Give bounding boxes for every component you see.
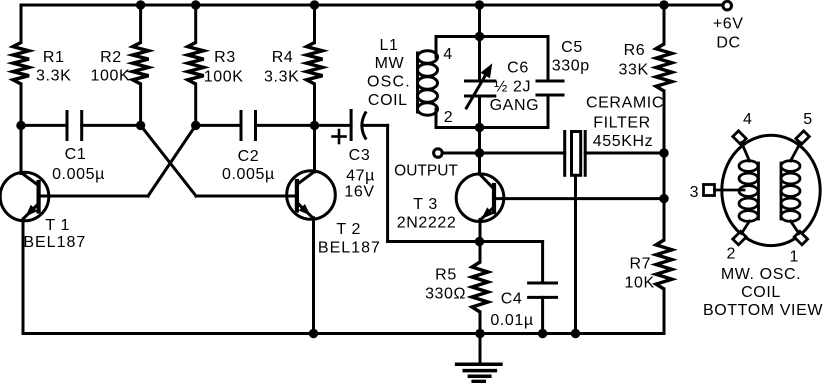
label C5 value 330p <box>552 58 590 75</box>
wire R4 node to C3 <box>315 124 352 127</box>
capacitor C2 <box>241 112 256 140</box>
svg-text:47µ: 47µ <box>346 167 375 184</box>
node output junction <box>475 148 484 157</box>
label T3 <box>413 196 438 213</box>
label C1 value 0.005u <box>52 166 105 183</box>
ground <box>457 334 501 382</box>
wire R3 top lead <box>194 5 197 43</box>
pin label 4 <box>743 111 753 128</box>
label R1 <box>43 49 65 66</box>
svg-text:BEL187: BEL187 <box>23 234 86 251</box>
pin label 2 (L1 bottom) <box>444 109 454 126</box>
wire R7 bottom lead <box>663 289 666 334</box>
wire tank column upper <box>478 5 481 37</box>
wire C1 to R2 node <box>82 124 141 127</box>
wire pin 3 lead <box>715 189 745 192</box>
wire R6 node to base node <box>663 153 666 199</box>
C3 polarity plus sign <box>333 130 346 143</box>
label C3 value 47u <box>346 167 375 184</box>
coil winding left (pins 4-2) <box>739 161 759 222</box>
wire C4 bottom lead <box>541 297 544 333</box>
pin label 3 <box>690 184 700 201</box>
wire T2 emitter lead <box>312 218 315 334</box>
coil pin 1 <box>794 231 807 244</box>
label COIL <box>741 284 781 301</box>
node top rail / R3 <box>191 0 200 9</box>
node top rail / R6 <box>659 0 668 9</box>
node top rail / tank column <box>475 0 484 9</box>
label C5 <box>561 39 583 56</box>
svg-text:OSC.: OSC. <box>367 73 411 90</box>
wire T2 collector lead <box>313 125 316 172</box>
inductor L1 MW oscillator coil <box>418 51 438 115</box>
svg-text:MW. OSC.: MW. OSC. <box>721 266 801 283</box>
wire R3 bottom lead <box>194 84 197 125</box>
label C4 value 0.01u <box>490 312 533 329</box>
label R1 value 3.3K <box>36 68 71 85</box>
wire R4 bottom lead <box>313 84 316 125</box>
svg-text:R7: R7 <box>629 256 651 273</box>
label L1 COIL <box>368 92 408 109</box>
wire bottom ground rail <box>23 332 664 335</box>
svg-text:R6: R6 <box>624 42 646 59</box>
resistor R3 <box>188 43 204 85</box>
wire T1 emitter lead <box>22 219 25 334</box>
pin label 5 <box>803 111 813 128</box>
label C4 <box>501 290 523 307</box>
label DC <box>716 35 740 52</box>
svg-text:BEL187: BEL187 <box>318 240 381 257</box>
label T1 part BEL187 <box>23 234 86 251</box>
wire R2 bottom lead <box>139 84 142 125</box>
label T2 part BEL187 <box>318 240 381 257</box>
svg-text:100K: 100K <box>204 69 244 86</box>
svg-text:COIL: COIL <box>368 92 408 109</box>
svg-text:+6V: +6V <box>713 16 744 33</box>
svg-text:3.3K: 3.3K <box>264 69 299 86</box>
label C2 value 0.005u <box>222 166 275 183</box>
svg-text:GANG: GANG <box>490 97 540 114</box>
resistor R5 <box>472 262 488 312</box>
svg-text:2: 2 <box>444 109 454 126</box>
transistor T2 <box>287 171 336 220</box>
node T3 emitter junction <box>475 237 484 246</box>
wire T2 base run <box>196 195 297 198</box>
node R4/C2/C3/T2 collector <box>310 121 319 130</box>
label R6 value 33K <box>619 61 649 78</box>
capacitor C3 curved plate <box>362 112 366 140</box>
node T2 emitter / ground rail <box>309 329 318 338</box>
label L1 OSC. <box>367 73 411 90</box>
node tank bottom / C6 <box>475 123 484 132</box>
wire C2 to R4 node <box>256 124 315 127</box>
svg-text:OUTPUT: OUTPUT <box>394 163 458 180</box>
wire pin 5 lead <box>791 143 801 162</box>
svg-text:455KHz: 455KHz <box>593 133 654 150</box>
svg-text:330Ω: 330Ω <box>425 286 466 303</box>
svg-text:COIL: COIL <box>741 284 781 301</box>
node filter / R6 junction <box>659 148 668 157</box>
coil bottom view outline <box>722 135 820 245</box>
wire tank to output node <box>478 128 481 154</box>
node filter bottom / ground rail <box>571 329 580 338</box>
label R7 value 10K <box>625 275 655 292</box>
transistor T3 <box>456 174 504 222</box>
label C1 <box>65 146 87 163</box>
wire R4 top lead <box>313 5 316 43</box>
capacitor C5 <box>537 81 563 95</box>
label R5 <box>435 267 457 284</box>
svg-text:C2: C2 <box>238 148 260 165</box>
svg-text:C1: C1 <box>65 146 87 163</box>
wire top +6V supply rail <box>21 4 723 7</box>
svg-text:0.01µ: 0.01µ <box>490 312 533 329</box>
wire T1 collector lead <box>20 125 23 173</box>
wire R7 top lead <box>663 199 666 240</box>
pin label 4 (L1 top) <box>443 46 453 63</box>
label OUTPUT <box>394 163 458 180</box>
node T3 base / divider junction <box>659 194 668 203</box>
label R2 <box>100 49 122 66</box>
svg-text:10K: 10K <box>625 275 655 292</box>
coil winding right (pins 5-1) <box>781 161 800 222</box>
label T1 <box>45 217 70 234</box>
resistor R6 <box>656 44 672 91</box>
label +6V <box>713 16 744 33</box>
svg-text:C3: C3 <box>349 147 371 164</box>
wire tank top <box>436 35 548 38</box>
svg-text:C6: C6 <box>507 59 529 76</box>
wire L1 top lead <box>435 37 438 58</box>
wire R5 top lead <box>479 242 482 263</box>
resistor R7 <box>656 240 672 289</box>
svg-text:330p: 330p <box>552 58 590 75</box>
label R6 <box>624 42 646 59</box>
wire pin 2 lead <box>742 221 750 234</box>
resistor R2 <box>133 43 149 85</box>
label CERAMIC <box>586 94 664 111</box>
wire R1 bottom lead <box>20 84 23 125</box>
wire output terminal to node <box>442 152 479 155</box>
svg-text:16V: 16V <box>344 183 374 200</box>
label R4 value 3.3K <box>264 69 299 86</box>
label C2 <box>238 148 260 165</box>
svg-text:0.005µ: 0.005µ <box>222 166 275 183</box>
coil pin 4 <box>733 131 746 144</box>
label C3 rating 16V <box>344 183 374 200</box>
wire T3 emitter lead <box>479 220 482 242</box>
coil pin 2 <box>733 231 746 244</box>
svg-text:DC: DC <box>716 35 740 52</box>
label 455KHz <box>593 133 654 150</box>
wire C6 bottom lead <box>478 96 481 128</box>
svg-text:3.3K: 3.3K <box>36 68 71 85</box>
resistor R1 <box>13 43 29 85</box>
label R3 value 100K <box>204 69 244 86</box>
ceramic filter 455KHz <box>565 132 586 176</box>
node R2/C1 junction <box>136 121 145 130</box>
wire emitter node to C4 <box>480 240 543 243</box>
node top rail / R2 <box>136 0 145 9</box>
wire cross-couple diagonal to T2 base <box>141 125 196 196</box>
label R7 <box>629 256 651 273</box>
wire L1 bottom lead <box>435 109 438 128</box>
label BOTTOM VIEW <box>703 302 823 319</box>
svg-text:100K: 100K <box>91 68 131 85</box>
node top rail / R4 <box>310 0 319 9</box>
wire pin 4 lead <box>742 143 750 162</box>
wire C3 right lead <box>363 124 388 127</box>
wire pin 1 lead <box>791 221 800 234</box>
wire C3 feedback horizontal <box>388 240 480 243</box>
svg-text:L1: L1 <box>380 37 399 54</box>
wire R5 bottom lead <box>479 312 482 334</box>
label L1 MW <box>375 55 405 72</box>
label C6 GANG <box>490 97 540 114</box>
svg-text:FILTER: FILTER <box>593 114 651 131</box>
wire C5 bottom lead <box>547 95 550 128</box>
svg-text:R2: R2 <box>100 49 122 66</box>
wire filter right lead <box>585 152 664 155</box>
node R3/C2 junction <box>191 121 200 130</box>
transistor T1 <box>0 172 49 221</box>
wire R6 bottom lead <box>663 91 666 153</box>
node R5 / ground rail <box>475 329 484 338</box>
svg-text:33K: 33K <box>619 61 649 78</box>
svg-text:R5: R5 <box>435 267 457 284</box>
svg-text:5: 5 <box>803 111 813 128</box>
svg-text:T 2: T 2 <box>336 221 361 238</box>
pin label 1 <box>790 248 800 265</box>
C6 variable arrow <box>466 63 492 108</box>
svg-text:T 1: T 1 <box>45 217 70 234</box>
wire output node to ceramic filter <box>480 152 565 155</box>
wire T1 base run <box>39 195 148 198</box>
svg-text:0.005µ: 0.005µ <box>52 166 105 183</box>
svg-text:C5: C5 <box>561 39 583 56</box>
capacitor C6 gang plates <box>466 81 495 96</box>
label T2 <box>336 221 361 238</box>
wire R1 top lead <box>20 5 23 43</box>
wire R1 node to C1 <box>21 124 67 127</box>
svg-text:2: 2 <box>726 246 736 263</box>
svg-text:3: 3 <box>690 184 700 201</box>
label MW. OSC. <box>721 266 801 283</box>
label FILTER <box>593 114 651 131</box>
coil pin 5 <box>796 131 809 144</box>
wire tank bottom <box>436 126 548 129</box>
svg-text:2N2222: 2N2222 <box>397 214 457 231</box>
label R5 value 330ohm <box>425 286 466 303</box>
svg-text:½ 2J: ½ 2J <box>494 79 531 96</box>
wire R6 top lead <box>663 5 666 44</box>
wire T3 collector lead <box>478 153 481 174</box>
wire C4 top lead <box>541 242 544 284</box>
svg-text:1: 1 <box>790 248 800 265</box>
wire T3 base run <box>494 197 664 200</box>
wire C6 top lead <box>478 37 481 82</box>
wire R3 node to C2 <box>196 124 241 127</box>
svg-text:R4: R4 <box>272 49 294 66</box>
label C3 <box>349 147 371 164</box>
svg-text:C4: C4 <box>501 290 523 307</box>
+6V supply terminal <box>723 1 732 10</box>
output terminal <box>434 149 443 158</box>
svg-text:T 3: T 3 <box>413 196 438 213</box>
pin label 2 <box>726 246 736 263</box>
svg-text:BOTTOM VIEW: BOTTOM VIEW <box>703 302 823 319</box>
wire cross-couple diagonal to T1 base <box>148 125 196 196</box>
svg-text:4: 4 <box>443 46 453 63</box>
node R1/C1/T1 collector <box>16 121 25 130</box>
label R4 <box>272 49 294 66</box>
label L1 <box>380 37 399 54</box>
capacitor C4 <box>529 283 557 297</box>
label T3 part 2N2222 <box>397 214 457 231</box>
label R2 value 100K <box>91 68 131 85</box>
label C6 value half 2J <box>494 79 531 96</box>
node tank top / C6 <box>475 32 484 41</box>
capacitor C1 <box>67 112 82 140</box>
wire C3 feedback vertical <box>386 125 389 241</box>
label C6 <box>507 59 529 76</box>
svg-text:CERAMIC: CERAMIC <box>586 94 664 111</box>
svg-text:4: 4 <box>743 111 753 128</box>
resistor R4 <box>307 43 323 85</box>
node C4 / ground rail <box>538 329 547 338</box>
wire R2 top lead <box>139 5 142 43</box>
svg-text:R3: R3 <box>214 49 236 66</box>
wire C5 top lead <box>547 37 550 82</box>
label R3 <box>214 49 236 66</box>
wire filter bottom lead <box>574 175 577 333</box>
svg-text:MW: MW <box>375 55 405 72</box>
svg-text:R1: R1 <box>43 49 65 66</box>
capacitor C3 plus plate <box>350 111 353 140</box>
coil pin 3 <box>704 185 715 196</box>
